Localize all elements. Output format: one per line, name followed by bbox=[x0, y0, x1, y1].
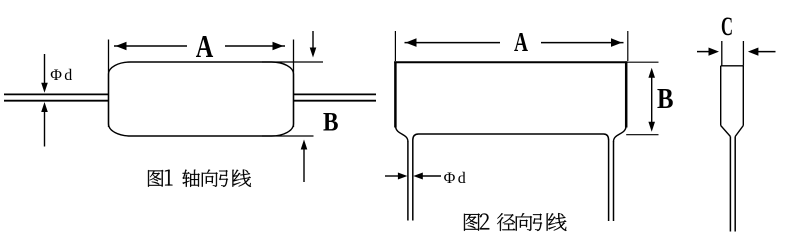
svg-text:A: A bbox=[514, 26, 528, 57]
svg-text:Φd: Φd bbox=[444, 170, 469, 187]
svg-text:B: B bbox=[657, 84, 674, 115]
svg-text:A: A bbox=[196, 28, 214, 64]
svg-text:B: B bbox=[323, 107, 339, 136]
svg-text:Φd: Φd bbox=[50, 67, 74, 84]
svg-text:C: C bbox=[721, 11, 733, 41]
